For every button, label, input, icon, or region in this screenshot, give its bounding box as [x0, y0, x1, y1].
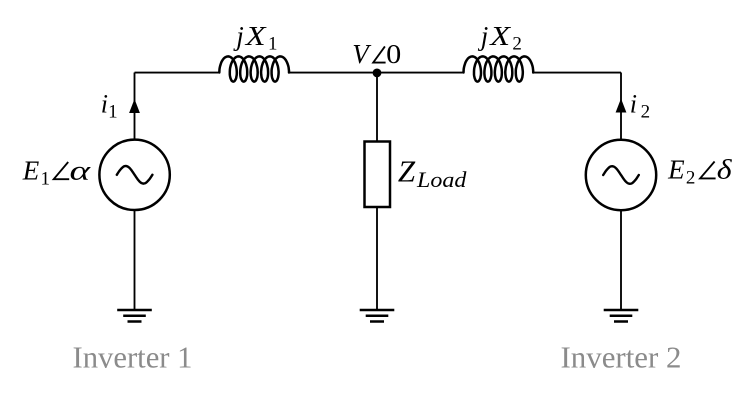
wire node to load	[376, 73, 378, 142]
inductor jX2	[464, 56, 534, 81]
wire source E2 to ground	[620, 210, 622, 310]
svg-text:δ: δ	[717, 156, 733, 185]
svg-text:2: 2	[686, 167, 696, 188]
ground (right, under E2)	[604, 310, 639, 322]
ground (left, under E1)	[117, 310, 152, 322]
svg-text:1: 1	[268, 34, 278, 55]
svg-text:X: X	[245, 21, 268, 51]
svg-text:X: X	[489, 21, 512, 51]
label jX1	[233, 21, 277, 55]
wire load to ground	[376, 207, 378, 310]
svg-text:2: 2	[641, 102, 651, 123]
label Z_Load	[398, 154, 467, 192]
wire top-right vertical (top rail to source E2)	[620, 73, 622, 141]
sine symbol of source E2	[603, 166, 639, 184]
svg-text:0: 0	[386, 40, 401, 70]
current arrow i2	[616, 99, 627, 113]
svg-text:Inverter 2: Inverter 2	[561, 339, 682, 374]
wire top rail right segment	[533, 72, 621, 74]
impedance Z_Load (rectangle)	[365, 142, 391, 208]
svg-text:Inverter 1: Inverter 1	[73, 339, 193, 374]
svg-text:Z: Z	[398, 154, 416, 189]
wire top-left vertical (source E1 to top rail)	[134, 73, 136, 140]
wire source E1 to ground	[134, 210, 136, 310]
svg-text:E: E	[667, 155, 685, 185]
angle symbol of E1 label	[54, 162, 69, 179]
angle symbol of node label	[373, 46, 385, 62]
svg-text:E: E	[22, 156, 40, 186]
ground (middle, under Z_Load)	[360, 310, 395, 322]
node V (junction dot)	[373, 69, 382, 78]
svg-text:Load: Load	[416, 167, 467, 192]
label i2	[630, 90, 650, 123]
svg-text:i: i	[101, 90, 108, 119]
svg-text:2: 2	[512, 34, 522, 55]
svg-text:1: 1	[41, 168, 51, 189]
svg-text:i: i	[630, 90, 637, 119]
inductor jX1	[219, 56, 289, 81]
label jX2	[478, 21, 522, 55]
svg-text:j: j	[233, 21, 244, 51]
sine symbol of source E1	[117, 166, 153, 184]
wire top rail left segment	[135, 72, 220, 74]
svg-text:j: j	[478, 21, 489, 51]
label i1	[101, 90, 118, 123]
current arrow i1	[129, 99, 140, 113]
label E2	[667, 155, 695, 189]
source E1 (AC source circle)	[99, 140, 169, 210]
angle symbol of E2 label	[700, 162, 716, 179]
wire top rail middle segment	[289, 72, 463, 74]
svg-text:α: α	[69, 156, 91, 186]
source E2 (AC source circle)	[586, 140, 656, 210]
svg-text:1: 1	[108, 102, 118, 123]
svg-text:V: V	[352, 39, 372, 69]
label E1	[22, 156, 50, 190]
